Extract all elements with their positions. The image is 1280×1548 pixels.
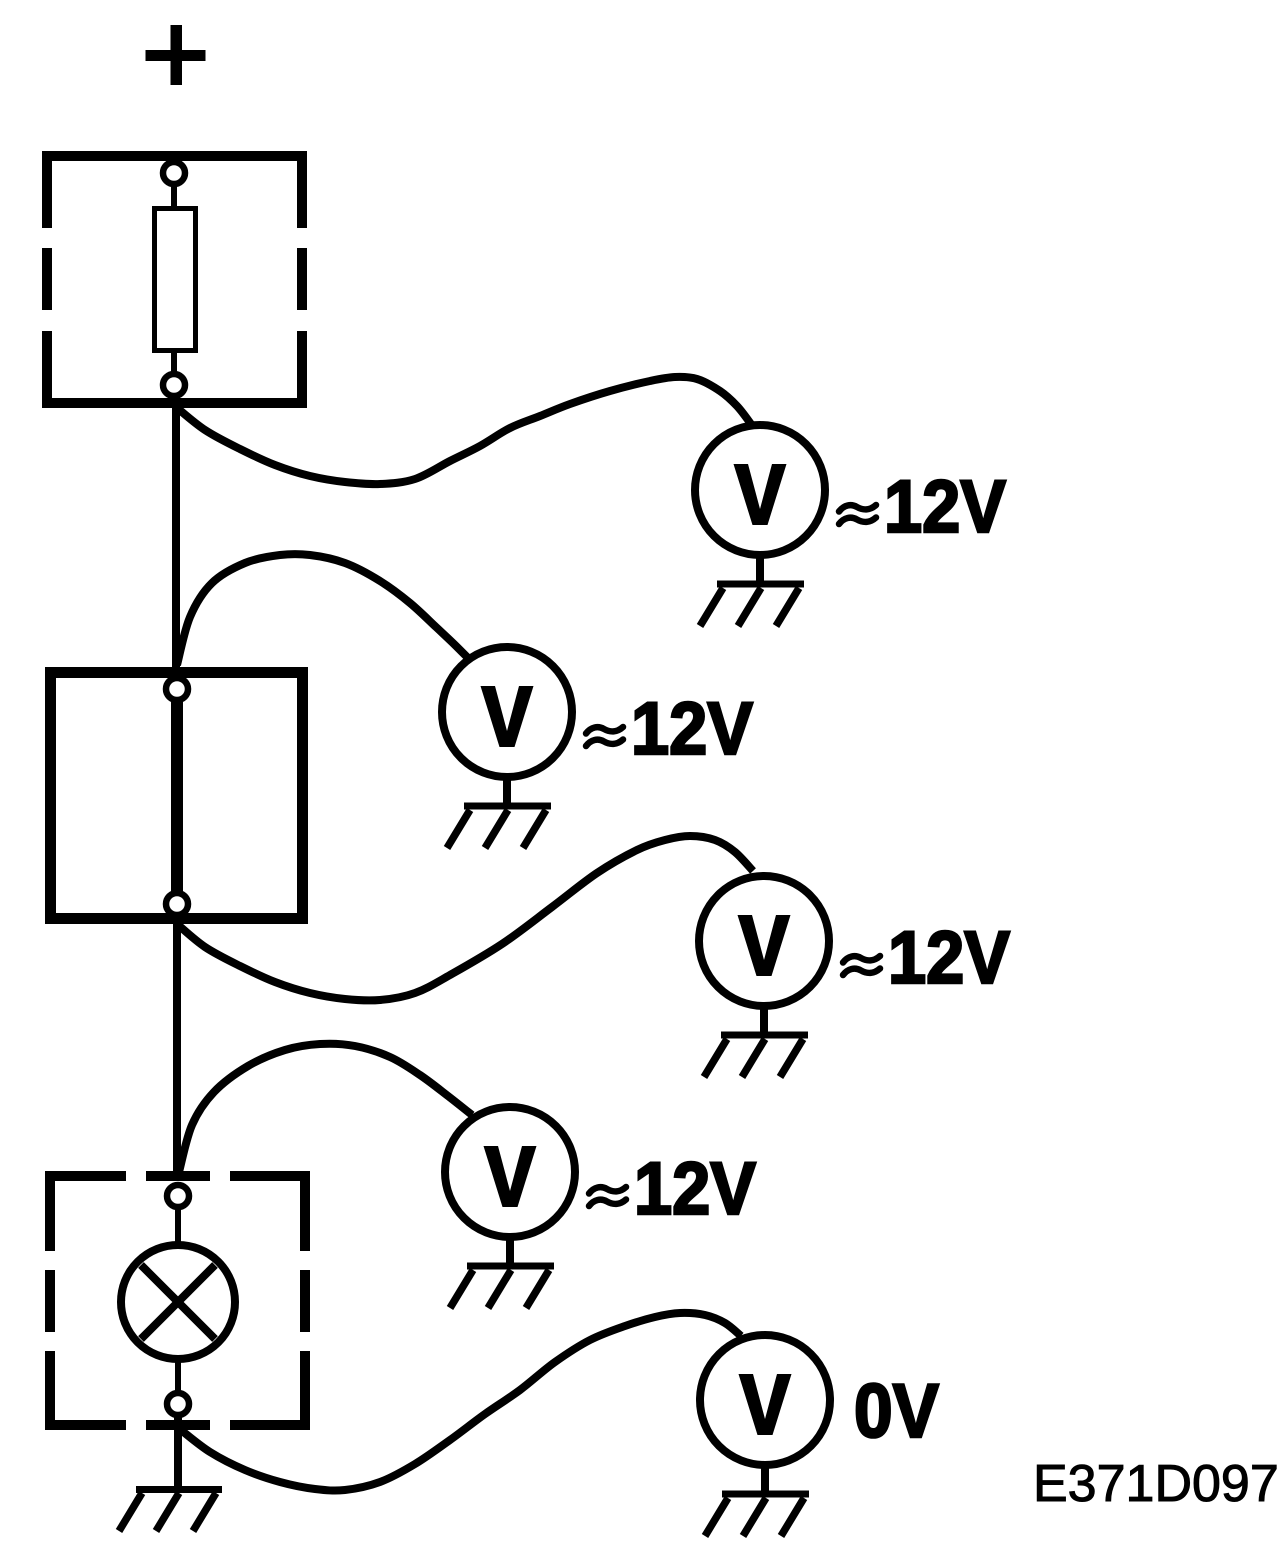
svg-text:0V: 0V	[854, 1369, 939, 1454]
lamp connector box (dashed)	[43, 1169, 312, 1432]
terminal pin (switch top)	[166, 678, 188, 700]
ground (voltmeter V5)	[705, 1465, 809, 1536]
wire to voltmeter V4	[179, 1044, 472, 1172]
wire to voltmeter V2	[177, 554, 468, 665]
node + (battery positive supply)	[146, 25, 206, 85]
voltmeter V5	[700, 1335, 830, 1465]
switch box (solid)	[51, 673, 303, 919]
label ~12V (V1)	[839, 505, 876, 524]
wire to voltmeter V1	[176, 377, 751, 484]
switch contact blade	[171, 699, 183, 892]
lamp E (bulb)	[121, 1245, 235, 1359]
ground (voltmeter V3)	[704, 1006, 808, 1077]
wire fuse box to switch box	[172, 396, 180, 672]
wire	[175, 1359, 181, 1395]
svg-text:12V: 12V	[888, 916, 1010, 999]
terminal pin (lamp top)	[167, 1185, 189, 1207]
svg-text:E371D097: E371D097	[1033, 1455, 1279, 1513]
voltmeter V3	[699, 876, 829, 1006]
fuse F	[155, 209, 196, 351]
voltmeter V2	[442, 647, 572, 777]
ground (voltmeter V1)	[700, 555, 804, 626]
label ~12V (V3)	[843, 956, 880, 975]
label ~12V (V2)	[586, 727, 623, 746]
voltmeter V4	[445, 1107, 575, 1237]
svg-text:12V: 12V	[884, 465, 1006, 548]
svg-text:12V: 12V	[631, 687, 753, 770]
terminal pin (fuse top)	[163, 162, 185, 184]
wire	[171, 351, 177, 374]
ground (voltmeter V4)	[450, 1237, 554, 1308]
wire	[175, 1207, 181, 1246]
wire switch box to lamp box	[173, 915, 181, 1176]
wire lamp box to ground	[174, 1415, 182, 1490]
wire to voltmeter V3	[177, 836, 753, 1000]
wire to voltmeter V5	[181, 1313, 741, 1491]
connector box (dashed) around fuse	[40, 156, 309, 403]
terminal pin (switch bottom)	[166, 893, 188, 915]
label ~12V (V4)	[589, 1187, 626, 1206]
terminal pin (fuse bottom)	[163, 374, 185, 396]
svg-text:12V: 12V	[634, 1147, 756, 1230]
ground (main circuit)	[119, 1486, 222, 1531]
ground (voltmeter V2)	[447, 777, 551, 848]
wire	[171, 185, 177, 208]
voltmeter V1	[695, 425, 825, 555]
terminal pin (lamp bottom)	[167, 1393, 189, 1415]
